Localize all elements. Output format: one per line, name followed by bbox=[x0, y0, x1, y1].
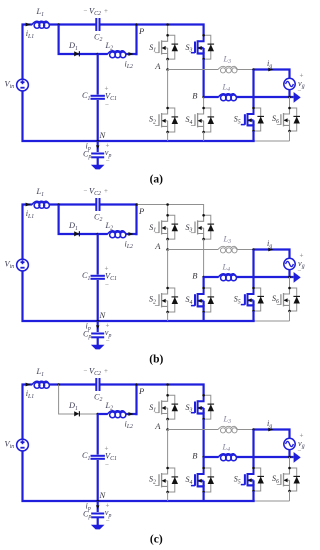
circuit mode (a) bbox=[5, 7, 305, 186]
wire S5 source stub bbox=[252, 491, 254, 501]
node junction D-row / C1 bbox=[96, 53, 99, 56]
pin dots of S4 bbox=[202, 467, 205, 470]
current arrow i_L2 bbox=[128, 52, 133, 56]
pin dots of S5 bbox=[252, 467, 255, 470]
wire node B to L4 bbox=[204, 456, 219, 458]
wire S2 drain stub bbox=[167, 430, 169, 469]
node N junction bbox=[96, 320, 99, 323]
wire S1 source to node A bbox=[167, 419, 169, 429]
transistor S1 bbox=[155, 215, 168, 239]
diode D1 bbox=[74, 231, 79, 236]
wire S6 drain stub bbox=[289, 277, 291, 288]
wire S5 drain stub bbox=[252, 430, 254, 469]
wire top rail node P to S3 drain bbox=[138, 205, 204, 216]
pin dots of S3 bbox=[202, 214, 205, 217]
body diode of S3 bbox=[204, 395, 215, 419]
wire S4 source stub bbox=[203, 312, 205, 321]
wire L2 to node P drop bbox=[126, 233, 137, 235]
body diode of S5 bbox=[254, 468, 265, 491]
node junction v_g bottom bbox=[288, 96, 291, 99]
pin dots of S6 bbox=[288, 467, 291, 470]
wire V_in top lead and top rail to L1 bbox=[23, 205, 33, 260]
current arrow i_L1 bbox=[26, 383, 31, 387]
capacitor C1 bbox=[91, 455, 105, 457]
node junction L3/S5/i_g bbox=[252, 428, 255, 431]
svg-text:−: − bbox=[106, 337, 110, 345]
inductor L4 bbox=[221, 95, 227, 101]
pin dots of S3 bbox=[202, 34, 205, 37]
transistor S6 bbox=[277, 468, 290, 491]
pin dots of S4 bbox=[202, 287, 205, 290]
node junction L3/S5/i_g bbox=[252, 68, 255, 71]
node B junction bbox=[202, 276, 205, 279]
inductor L3 bbox=[220, 68, 225, 73]
voltage source V_in bbox=[17, 439, 29, 451]
pin dots of S3 bbox=[202, 394, 205, 397]
svg-text:−: − bbox=[298, 446, 302, 454]
current direction arrowhead bbox=[294, 92, 301, 103]
wire S5 drain stub bbox=[252, 70, 254, 109]
capacitor Cp bbox=[91, 153, 104, 155]
transistor S1 bbox=[155, 395, 168, 419]
wire S2 drain stub bbox=[167, 70, 169, 109]
body diode of S1 bbox=[168, 395, 179, 419]
wire S3 source to node B bbox=[203, 239, 205, 277]
node B junction bbox=[202, 456, 205, 459]
wire S3 source to node B bbox=[203, 419, 205, 457]
ground symbol bbox=[91, 525, 105, 530]
node B junction bbox=[202, 96, 205, 99]
wire S2 drain stub bbox=[167, 250, 169, 289]
transistor S4 bbox=[191, 288, 204, 312]
transistor S3 bbox=[191, 215, 204, 239]
wire L3 to S5 junction bbox=[238, 69, 254, 71]
voltage source V_in bbox=[17, 79, 29, 91]
node junction top rail / S1 bbox=[166, 203, 169, 206]
pin dots of S4 bbox=[202, 107, 205, 110]
wire S5 source stub bbox=[252, 131, 254, 141]
current arrow i_p bbox=[96, 325, 100, 329]
svg-text:A: A bbox=[154, 61, 161, 71]
transistor S2 bbox=[155, 108, 168, 132]
wire top rail L1 to C2 bbox=[50, 203, 97, 205]
svg-text:−: − bbox=[298, 266, 302, 274]
svg-text:−: − bbox=[105, 280, 109, 288]
transistor S2 bbox=[155, 468, 168, 492]
wire S1 drain stub bbox=[167, 25, 169, 36]
svg-text:P: P bbox=[138, 206, 144, 216]
inductor L2 bbox=[110, 412, 116, 418]
svg-text:A: A bbox=[154, 241, 161, 251]
wire Cp upper lead bbox=[97, 501, 99, 512]
node junction v_g bottom bbox=[288, 456, 291, 459]
wire Cp upper lead bbox=[97, 321, 99, 332]
pin dots of S5 bbox=[252, 287, 255, 290]
wire node A to L3 bbox=[168, 69, 218, 71]
inductor L2 bbox=[110, 232, 116, 238]
body diode of S3 bbox=[204, 35, 215, 59]
current arrow i_p bbox=[96, 145, 100, 149]
wire top rail C2 to node P bbox=[100, 23, 138, 25]
wire S6 source stub bbox=[289, 131, 291, 141]
wire top rail C2 to node P bbox=[100, 203, 138, 205]
inductor L1 bbox=[34, 23, 40, 29]
wire i_g segment to v_g bbox=[254, 70, 290, 79]
current arrow i_g bbox=[268, 428, 273, 432]
inductor L3 bbox=[220, 248, 225, 253]
node junction at D-row drop bbox=[57, 203, 60, 206]
current arrow i_L1 bbox=[26, 203, 31, 207]
wire node B to L4 bbox=[204, 276, 219, 278]
wire D-row drop and diode branch to C1 node bbox=[59, 385, 98, 415]
current arrow i_L2 bbox=[128, 412, 133, 416]
wire S6 drain stub bbox=[289, 97, 291, 108]
wire S5 source stub bbox=[252, 311, 254, 321]
inductor L2 bbox=[110, 52, 116, 58]
pin dots of S5 bbox=[252, 107, 255, 110]
node junction at P corner bbox=[135, 23, 138, 26]
wire top rail node P to S3 drain bbox=[138, 385, 204, 396]
wire Cp to ground bbox=[97, 338, 99, 346]
pin dots of S6 bbox=[288, 287, 291, 290]
svg-text:A: A bbox=[154, 421, 161, 431]
transistor S1 bbox=[155, 35, 168, 59]
node junction L3/S5/i_g bbox=[252, 248, 255, 251]
wire C1 node to L2 bbox=[98, 53, 108, 55]
wire Cp upper lead bbox=[97, 141, 99, 152]
wire bottom rail inactive segment bbox=[255, 320, 290, 322]
transistor S5 bbox=[241, 108, 254, 131]
capacitor C2 bbox=[95, 18, 97, 31]
node N junction bbox=[96, 140, 99, 143]
wire V_in top lead and top rail to L1 bbox=[23, 385, 33, 440]
wire v_g bottom lead bbox=[290, 90, 294, 97]
pin dots of S1 bbox=[166, 394, 169, 397]
wire S1 source to node A bbox=[167, 239, 169, 249]
body diode of S4 bbox=[204, 468, 215, 492]
pin dots of S2 bbox=[166, 287, 169, 290]
svg-text:−: − bbox=[106, 157, 110, 165]
wire S6 source stub bbox=[289, 311, 291, 321]
wire L2 to node P drop bbox=[126, 413, 137, 415]
current arrow i_L1 bbox=[26, 23, 31, 27]
wire C1 node to L2 bbox=[98, 233, 108, 235]
body diode of S1 bbox=[168, 215, 179, 239]
wire S4 drain stub bbox=[203, 277, 205, 288]
body diode of S6 bbox=[290, 108, 301, 131]
transistor S5 bbox=[241, 468, 254, 491]
inductor L4 bbox=[221, 455, 227, 461]
svg-text:(c): (c) bbox=[150, 534, 163, 546]
body diode of S2 bbox=[168, 108, 179, 132]
wire S2 source stub bbox=[167, 492, 169, 501]
capacitor Cp bbox=[91, 333, 104, 335]
wire S1 source to node A bbox=[167, 59, 169, 69]
node A junction bbox=[166, 428, 169, 431]
body diode of S5 bbox=[254, 288, 265, 311]
capacitor C1 bbox=[91, 275, 105, 277]
pin dots of S2 bbox=[166, 107, 169, 110]
node junction at D-row drop bbox=[57, 383, 60, 386]
svg-text:−: − bbox=[106, 517, 110, 525]
node junction at P corner bbox=[135, 203, 138, 206]
voltage source V_in bbox=[17, 259, 29, 271]
current arrow i_g bbox=[268, 68, 273, 72]
ac source v_g bbox=[284, 258, 295, 269]
svg-text:−: − bbox=[84, 7, 88, 15]
wire S4 source stub bbox=[203, 492, 205, 501]
circuit mode (b) bbox=[5, 187, 305, 366]
current arrow i_L2 bbox=[128, 232, 133, 236]
transistor S2 bbox=[155, 288, 168, 312]
wire top rail L1 to C2 bbox=[50, 23, 97, 25]
body diode of S6 bbox=[290, 468, 301, 491]
svg-text:P: P bbox=[138, 26, 144, 36]
svg-text:+: + bbox=[104, 7, 108, 15]
svg-text:(b): (b) bbox=[149, 354, 163, 366]
node N junction bbox=[96, 500, 99, 503]
ground symbol bbox=[91, 165, 105, 170]
body diode of S3 bbox=[204, 215, 215, 239]
svg-text:B: B bbox=[192, 271, 197, 281]
wire i_g segment to v_g bbox=[254, 430, 290, 439]
wire V_in top lead and top rail to L1 bbox=[23, 25, 33, 80]
transistor S3 bbox=[191, 395, 204, 419]
body diode of S2 bbox=[168, 468, 179, 492]
wire Cp to ground bbox=[97, 158, 99, 166]
inductor L1 bbox=[34, 203, 40, 209]
wire v_g bottom lead bbox=[290, 450, 294, 457]
wire S4 source stub bbox=[203, 132, 205, 141]
wire L3 to S5 junction bbox=[238, 249, 254, 251]
capacitor C2 bbox=[95, 378, 97, 391]
svg-text:P: P bbox=[138, 386, 144, 396]
wire S4 drain stub bbox=[203, 457, 205, 468]
pin dots of S6 bbox=[288, 107, 291, 110]
wire V_in bottom lead and bottom rail bbox=[23, 271, 255, 321]
current direction arrowhead bbox=[294, 272, 301, 283]
node P drop wire bbox=[135, 25, 137, 56]
pin dots of S1 bbox=[166, 34, 169, 37]
current direction arrowhead bbox=[294, 452, 301, 463]
node A junction bbox=[166, 68, 169, 71]
capacitor C2 bbox=[95, 198, 97, 211]
transistor S6 bbox=[277, 108, 290, 131]
wire C1 upper lead bbox=[97, 234, 99, 275]
current arrow i_g bbox=[268, 248, 273, 252]
wire i_g segment to v_g bbox=[254, 250, 290, 259]
wire V_in bottom lead and bottom rail bbox=[23, 91, 255, 141]
transistor S4 bbox=[191, 468, 204, 492]
transistor S6 bbox=[277, 288, 290, 311]
circuit mode (c) bbox=[5, 367, 305, 546]
wire S1 drain stub bbox=[167, 385, 169, 396]
wire L4 to v_g bottom node bbox=[237, 96, 290, 98]
inductor L3 bbox=[220, 428, 225, 433]
wire S4 drain stub bbox=[203, 97, 205, 108]
svg-text:−: − bbox=[84, 367, 88, 375]
wire S2 source stub bbox=[167, 132, 169, 141]
wire node B to L4 bbox=[204, 96, 219, 98]
wire S5 drain stub bbox=[252, 250, 254, 289]
diode D1 bbox=[74, 51, 79, 56]
svg-text:B: B bbox=[192, 451, 197, 461]
wire S1 drain stub bbox=[167, 205, 169, 216]
transistor S3 bbox=[191, 35, 204, 59]
body diode of S5 bbox=[254, 108, 265, 131]
transistor S4 bbox=[191, 108, 204, 132]
wire S3 source to node B bbox=[203, 59, 205, 97]
node junction top rail / S1 bbox=[166, 383, 169, 386]
inductor L1 bbox=[34, 383, 40, 389]
wire C1 upper lead bbox=[97, 414, 99, 455]
svg-text:−: − bbox=[105, 100, 109, 108]
capacitor C1 bbox=[91, 95, 105, 97]
node P drop wire bbox=[135, 385, 137, 416]
node junction D-row / C1 bbox=[96, 413, 99, 416]
capacitor Cp bbox=[91, 513, 104, 515]
body diode of S4 bbox=[204, 108, 215, 132]
node junction top rail / S1 bbox=[166, 23, 169, 26]
wire S6 source stub bbox=[289, 491, 291, 501]
wire top rail node P to S3 drain bbox=[138, 25, 204, 36]
wire L2 to node P drop bbox=[126, 53, 137, 55]
wire S6 drain stub bbox=[289, 457, 291, 468]
pin dots of S2 bbox=[166, 467, 169, 470]
wire C1 lower lead to node N bbox=[97, 280, 99, 321]
svg-text:+: + bbox=[104, 187, 108, 195]
body diode of S6 bbox=[290, 288, 301, 311]
wire v_g bottom lead bbox=[290, 270, 294, 277]
inductor L4 bbox=[221, 275, 227, 281]
wire C1 lower lead to node N bbox=[97, 100, 99, 141]
svg-text:−: − bbox=[298, 86, 302, 94]
body diode of S4 bbox=[204, 288, 215, 312]
ac source v_g bbox=[284, 78, 295, 89]
node junction at P corner bbox=[135, 383, 138, 386]
wire top rail L1 to C2 bbox=[50, 383, 97, 385]
wire bottom rail inactive segment bbox=[255, 140, 290, 142]
body diode of S1 bbox=[168, 35, 179, 59]
ground symbol bbox=[91, 345, 105, 350]
wire node A to L3 bbox=[168, 429, 218, 431]
wire bottom rail inactive segment bbox=[255, 500, 290, 502]
wire L3 to S5 junction bbox=[238, 429, 254, 431]
wire Cp to ground bbox=[97, 518, 99, 526]
node junction v_g bottom bbox=[288, 276, 291, 279]
current arrow i_p bbox=[96, 505, 100, 509]
wire C1 lower lead to node N bbox=[97, 460, 99, 501]
wire L4 to v_g bottom node bbox=[237, 456, 290, 458]
transistor S5 bbox=[241, 288, 254, 311]
ac source v_g bbox=[284, 438, 295, 449]
wire node A to L3 bbox=[168, 249, 218, 251]
svg-text:B: B bbox=[192, 91, 197, 101]
node P drop wire bbox=[135, 205, 137, 236]
wire V_in bottom lead and bottom rail bbox=[23, 451, 255, 501]
wire top rail C2 to node P bbox=[100, 383, 138, 385]
svg-text:(a): (a) bbox=[150, 174, 164, 186]
node A junction bbox=[166, 248, 169, 251]
wire L4 to v_g bottom node bbox=[237, 276, 290, 278]
node junction D-row / C1 bbox=[96, 233, 99, 236]
wire D-row drop and diode branch to C1 node bbox=[59, 205, 98, 235]
node junction at D-row drop bbox=[57, 23, 60, 26]
wire D-row drop and diode branch to C1 node bbox=[59, 25, 98, 55]
svg-text:−: − bbox=[84, 187, 88, 195]
wire C1 node to L2 bbox=[98, 413, 108, 415]
diode D1 bbox=[74, 411, 79, 416]
wire S2 source stub bbox=[167, 312, 169, 321]
svg-text:+: + bbox=[104, 367, 108, 375]
svg-text:−: − bbox=[105, 460, 109, 468]
pin dots of S1 bbox=[166, 214, 169, 217]
body diode of S2 bbox=[168, 288, 179, 312]
wire C1 upper lead bbox=[97, 54, 99, 95]
